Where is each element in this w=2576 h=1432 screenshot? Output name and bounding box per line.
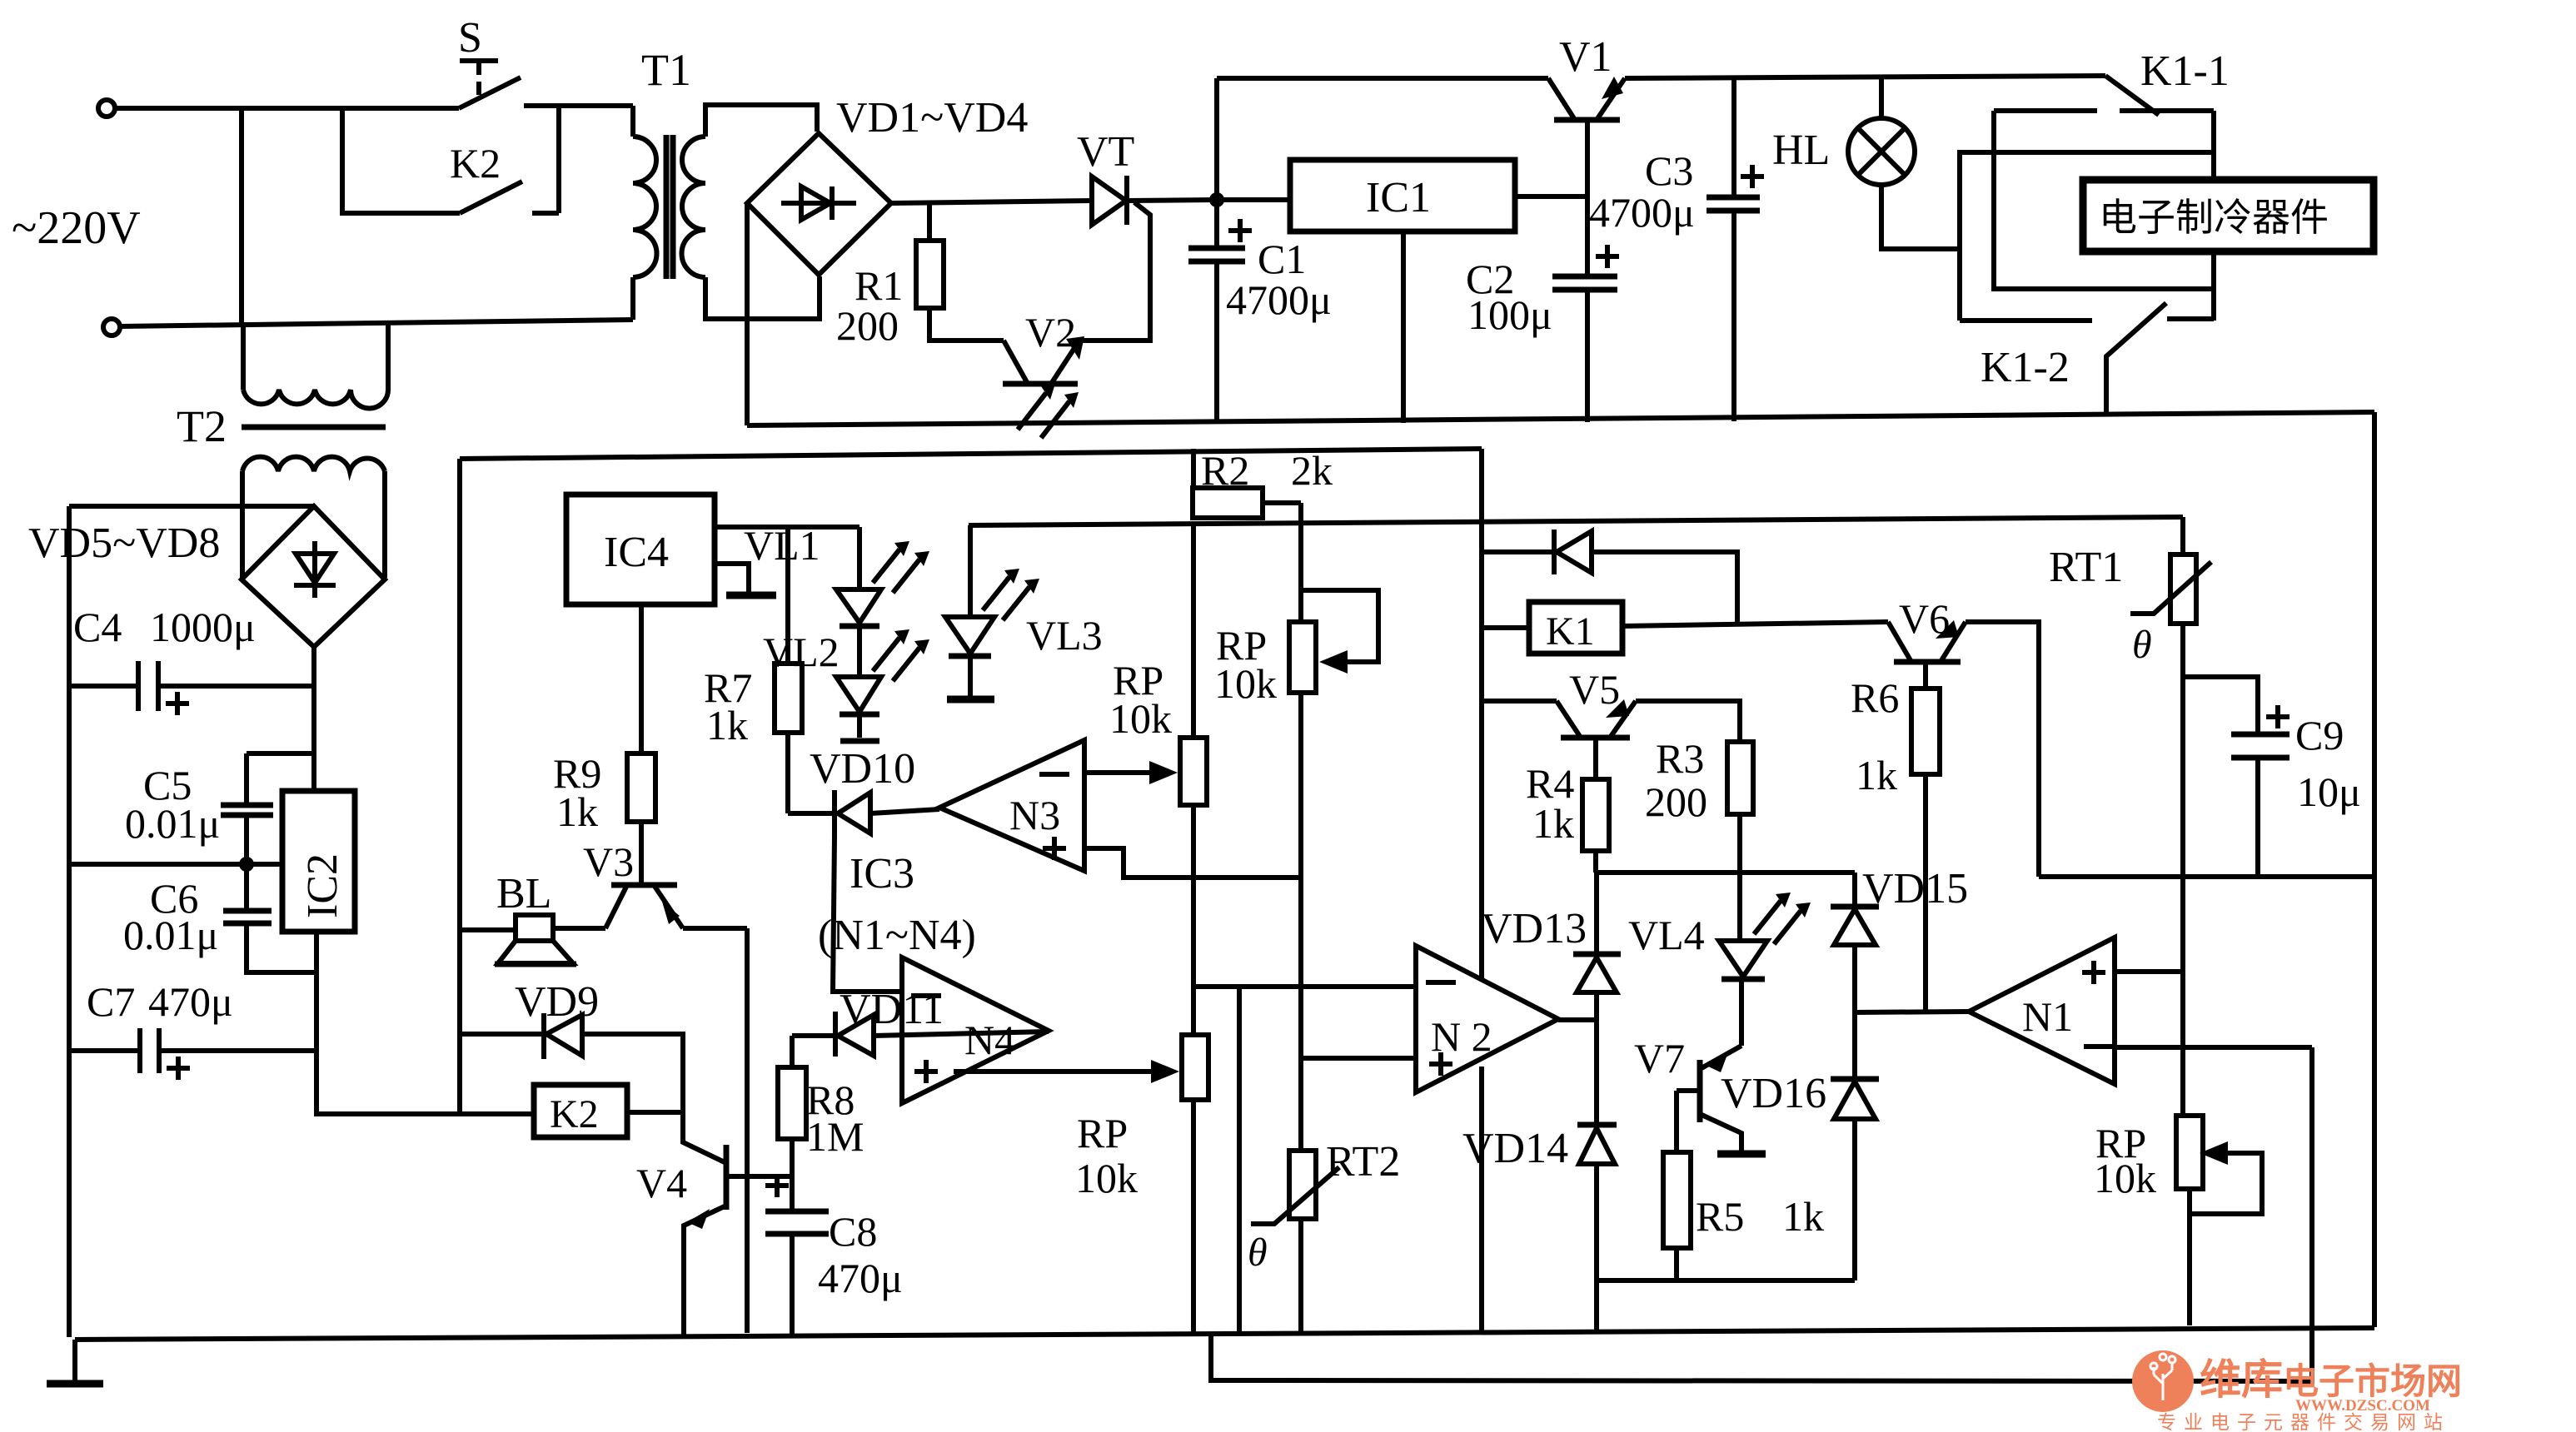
node junction C5 C6 [239,857,254,872]
regulator IC1 box [1217,160,1587,423]
label C7 470u [87,978,233,1025]
svg-text:10k: 10k [2094,1155,2156,1201]
diode VD10 [788,790,939,837]
led VL1 [836,527,929,626]
svg-text:VD11: VD11 [840,986,944,1033]
svg-text:IC1: IC1 [1366,174,1431,221]
wire mains vertical tap [239,108,244,326]
capacitor C2 [1552,245,1619,422]
wire N1 minus input [2115,1045,2312,1050]
label C1 4700u [1226,236,1332,323]
svg-text:VD9: VD9 [515,978,599,1026]
svg-text:1k: 1k [1856,752,1897,798]
label R4 1k [1526,760,1574,847]
wire bridge bottom to IC2 [311,647,316,791]
svg-text:VD15: VD15 [1862,865,1968,912]
svg-text:2k: 2k [1291,447,1333,494]
svg-text:C3: C3 [1645,147,1693,194]
relay contact K1-1 [1994,76,2214,115]
svg-text:VT: VT [1077,128,1134,176]
label V4 [636,1160,687,1206]
label BL [496,870,551,917]
label C2 100u [1466,256,1552,338]
box cooling device [2083,180,2374,251]
wire N4 plus to RP wiper [954,1060,1179,1083]
node 220V terminal bottom [103,319,120,336]
wire bottom mains [120,320,633,326]
switch S [459,61,521,108]
svg-text:K2: K2 [550,1092,599,1136]
label VD1~VD4 [836,94,1028,142]
wire S to T1 [524,103,633,108]
label VD9 [515,978,599,1026]
resistor R1 [916,201,1004,341]
svg-text:VL2: VL2 [763,629,840,675]
label V3 [583,838,634,885]
label RP 10k (N4) [1075,1110,1138,1201]
diode flyback K1 [1482,530,1737,624]
diode VD13 [1573,873,1621,1125]
svg-text:C7: C7 [87,978,135,1025]
wire node row y1048 [1596,870,1855,875]
label IC1 [1366,174,1431,221]
resistor R9 [627,753,655,885]
transistor V6 [1888,620,2039,877]
svg-text:V7: V7 [1634,1035,1685,1081]
label C4 1000u [73,604,256,650]
wire V3 emitter down [683,928,747,1333]
label S [458,14,482,62]
resistor R2 [1193,449,1301,518]
wire node row y1053 [2039,874,2374,879]
svg-text:V3: V3 [583,838,634,885]
label RT2 [1326,1138,1400,1186]
wire bridge left vertex down [745,203,750,425]
label C8 470u [818,1208,903,1301]
label V7 [1634,1035,1685,1081]
wire N1 plus input [2115,969,2183,974]
wire left rail vertical [67,506,72,1337]
label R3 200 [1645,735,1707,825]
label V2 [1025,309,1076,356]
label VD15 [1862,865,1968,912]
wire N3 minus to RP wiper [1084,761,1178,784]
svg-text:RP: RP [1077,1110,1128,1156]
svg-text:IC2: IC2 [299,853,346,918]
svg-text:VD1~VD4: VD1~VD4 [836,94,1028,142]
wire top-left mains [115,106,459,111]
opamp N2 [1416,946,1597,1092]
label VD14 [1462,1125,1568,1172]
label VL1 [744,522,820,569]
svg-text:1000μ: 1000μ [150,604,256,650]
svg-text:R5: R5 [1696,1193,1744,1240]
phototransistor V2 [1003,336,1084,438]
label VD16 [1721,1070,1826,1117]
IC2 box [282,791,355,932]
opamp N3 [939,740,1084,871]
label RP 10k (upper) [1214,622,1277,707]
label R2 2k [1201,447,1333,494]
wire K1-1 left loop [1994,111,2214,289]
diode VD14 [1577,1125,1617,1333]
transformer T2 [242,322,388,578]
svg-text:K1-2: K1-2 [1981,344,2070,391]
svg-text:V4: V4 [636,1160,687,1206]
led VL3 [945,525,1039,699]
resistor R3 [1727,742,1753,941]
svg-text:470μ: 470μ [148,978,233,1025]
wire lamp node loop [1960,152,2214,321]
thermistor RT1 [2130,517,2211,1116]
svg-text:N4: N4 [964,1017,1015,1063]
svg-text:VL4: VL4 [1628,912,1705,958]
resistor R5 [1663,1091,1691,1280]
wire x1488 vertical [1237,987,1242,1334]
label VD11 [840,986,944,1033]
svg-text:V6: V6 [1899,595,1950,642]
wire mid rail (top section return) [747,412,2374,425]
wire N2 minus input [1193,984,1416,989]
diode VD9 [460,1013,683,1112]
wire N1 output [1855,1012,1969,1012]
transistor V5 [1482,699,1740,779]
transistor V7 [1677,1046,1766,1154]
label T1 [641,45,691,95]
led VL2 [836,626,929,741]
svg-text:V2: V2 [1025,309,1076,356]
lamp HL [1848,76,1960,249]
svg-text:θ: θ [2132,623,2152,667]
wire K1 branch vertical [1479,449,1484,1333]
wire ground rail [75,1328,2374,1340]
svg-text:1k: 1k [706,702,748,748]
label V6 [1899,595,1950,642]
svg-text:K1: K1 [1546,609,1595,654]
wire V2 emitter to VT cathode [1079,202,1150,341]
svg-text:100μ: 100μ [1467,291,1552,338]
svg-text:1M: 1M [806,1113,864,1160]
capacitor C7 [69,1028,316,1080]
svg-text:C9: C9 [2295,712,2344,758]
relay coil K2 [534,1085,683,1137]
label VT [1077,128,1134,176]
label ~220V [12,202,141,254]
wire N2 plus input [1301,1056,1416,1061]
svg-text:R3: R3 [1656,735,1704,782]
svg-text:470μ: 470μ [818,1255,903,1301]
label VD13 [1481,905,1587,952]
label RP 10k (N3) [1109,657,1172,742]
wire top rail to V1 [1217,76,1548,81]
IC4 box [566,495,715,604]
svg-text:200: 200 [1645,778,1707,825]
label VL2 [763,629,840,675]
capacitor C6 [223,864,316,972]
opamp N4 [902,957,1049,1103]
resistor R4 [1582,779,1609,873]
wire bridge output to VT [891,201,1092,203]
wire N3 plus input [1084,848,1301,878]
svg-text:V1: V1 [1559,33,1612,81]
label VL4 [1628,912,1705,958]
svg-text:IC4: IC4 [604,529,669,576]
label VL3 [1026,612,1103,659]
label R1 200 [836,262,903,349]
svg-text:0.01μ: 0.01μ [123,912,218,958]
svg-text:10k: 10k [1214,660,1277,707]
svg-text:0.01μ: 0.01μ [125,800,220,847]
svg-text:维库电子市场网: 维库电子市场网 [2200,1356,2462,1403]
resistor R8 [778,1036,806,1211]
potentiometer RP3 (N4) [1182,1035,1208,1333]
ground symbol [47,1340,103,1384]
label K1-1 [2140,47,2230,95]
wire IC4 bottom pin [639,604,644,753]
capacitor C8 [765,1174,829,1335]
svg-text:1k: 1k [1532,800,1574,847]
capacitor C5 [221,753,314,864]
potentiometer RP2 (upper) [1289,503,1378,1151]
svg-text:200: 200 [836,302,899,349]
svg-text:VD5~VD8: VD5~VD8 [28,520,220,567]
svg-text:IC3: IC3 [850,850,914,897]
wire device top stub [2211,111,2216,180]
svg-text:RT1: RT1 [2049,544,2123,591]
speaker BL [460,915,605,964]
label VD5~VD8 [28,520,220,567]
svg-text:VD16: VD16 [1721,1070,1826,1117]
svg-text:BL: BL [496,870,551,917]
svg-text:1k: 1k [556,788,598,835]
potentiometer RP4 (N1) [2176,1116,2262,1325]
label C6 0.01u [123,875,218,958]
label IC3 [850,850,914,897]
wire top rail V1 to K1-1 [1625,76,2105,78]
label N1~N4 [818,912,976,959]
diode VT [1092,176,1127,225]
capacitor C4 [69,661,314,715]
svg-text:10k: 10k [1109,695,1172,742]
ground IC4 pin [715,564,776,595]
potentiometer RP1 (N3) [1180,525,1207,1035]
svg-text:θ: θ [1248,1231,1268,1275]
label theta RT1 [2132,623,2152,667]
relay coil K1 [1482,602,1888,654]
bridge rectifier VD5~VD8 [242,506,385,647]
svg-text:T2: T2 [177,401,227,451]
resistor R7 [775,527,802,813]
svg-text:C1: C1 [1258,236,1306,282]
svg-text:VD14: VD14 [1462,1125,1568,1172]
svg-text:VD13: VD13 [1481,905,1587,952]
svg-text:S: S [458,14,482,62]
svg-text:VL1: VL1 [744,522,820,569]
label RT1 [2049,544,2123,591]
label T2 [177,401,227,451]
wire rail3 [969,517,2183,525]
resistor R6 [1911,689,1940,1012]
wire subbox bottom [1597,1278,1855,1283]
svg-text:专业电子元器件交易网站: 专业电子元器件交易网站 [2157,1412,2450,1432]
label V1 [1559,33,1612,81]
svg-text:R6: R6 [1851,674,1899,721]
svg-text:N1: N1 [2022,993,2073,1040]
transistor V3 [605,885,683,928]
label C9 10u [2295,712,2361,815]
svg-text:R2: R2 [1201,447,1249,494]
wire feedback low rail [1211,1047,2312,1381]
wire IC4 top pin [715,525,859,530]
wire IC2 bottom pin [316,932,534,1114]
label V5 [1569,666,1620,713]
label RP 10k (N1) [2094,1120,2156,1201]
svg-text:K1-1: K1-1 [2140,47,2230,95]
capacitor C3 [1707,78,1764,421]
svg-text:(N1~N4): (N1~N4) [818,912,976,959]
relay contact K2 (mains bypass) [342,107,559,213]
svg-text:RT2: RT2 [1326,1138,1400,1186]
wire supply vertical x554 [457,459,462,1114]
opamp N1 [1969,937,2115,1084]
diode VD16 [1831,1079,1879,1280]
transistor V1 [1548,77,1625,276]
bridge rectifier VD1~VD4 [747,133,891,275]
wire node up to top rail [1214,78,1219,200]
label K1-2 [1981,344,2070,391]
transformer T1 [633,105,820,320]
capacitor C9 [2183,677,2290,877]
svg-text:4700μ: 4700μ [1589,189,1695,236]
led VL4 [1719,893,1811,1046]
svg-text:N3: N3 [1009,792,1060,838]
svg-text:1k: 1k [1782,1193,1824,1240]
svg-text:HL: HL [1772,127,1830,174]
label R7 1k [704,664,752,748]
svg-text:~220V: ~220V [12,202,141,254]
wire mid rail to IC2 [69,862,282,867]
transistor V4 [683,1112,792,1335]
svg-text:VD10: VD10 [810,745,915,793]
relay contact K1-2 [1960,303,2214,414]
svg-text:电子制冷器件: 电子制冷器件 [2099,196,2329,239]
label R5 1k [1696,1193,1824,1240]
watermark logo [2132,1350,2462,1432]
svg-text:C4: C4 [73,604,122,650]
label R6 1k [1851,674,1899,798]
svg-text:VL3: VL3 [1026,612,1103,659]
label R9 1k [553,750,601,835]
label R8 1M [806,1076,864,1160]
capacitor C1 [1188,200,1252,424]
svg-text:4700μ: 4700μ [1226,276,1332,323]
node 220V terminal top [98,100,115,117]
label HL [1772,127,1830,174]
svg-text:10k: 10k [1075,1155,1138,1201]
svg-text:T1: T1 [641,45,691,95]
thermistor RT2 [1251,1151,1339,1334]
wire left rail top [69,504,314,509]
svg-text:V5: V5 [1569,666,1620,713]
wire right edge vertical [2372,412,2377,1327]
label C3 4700u [1589,147,1695,236]
svg-text:K2: K2 [450,140,501,186]
wire VT to C1 node [1127,200,1217,201]
svg-text:C8: C8 [829,1208,877,1255]
label VD10 [810,745,915,793]
diode VD11 [792,1012,1049,1057]
label K2 [450,140,501,186]
label theta RT2 [1248,1231,1268,1275]
wire rail2 [460,449,1482,459]
svg-text:10μ: 10μ [2297,768,2361,815]
wire VD10 node to N4 minus [833,837,902,992]
label C5 0.01u [125,762,220,847]
node junction C1 [1209,192,1224,207]
wire device bottom stub [2211,251,2216,321]
diode VD15 [1831,873,1879,1079]
